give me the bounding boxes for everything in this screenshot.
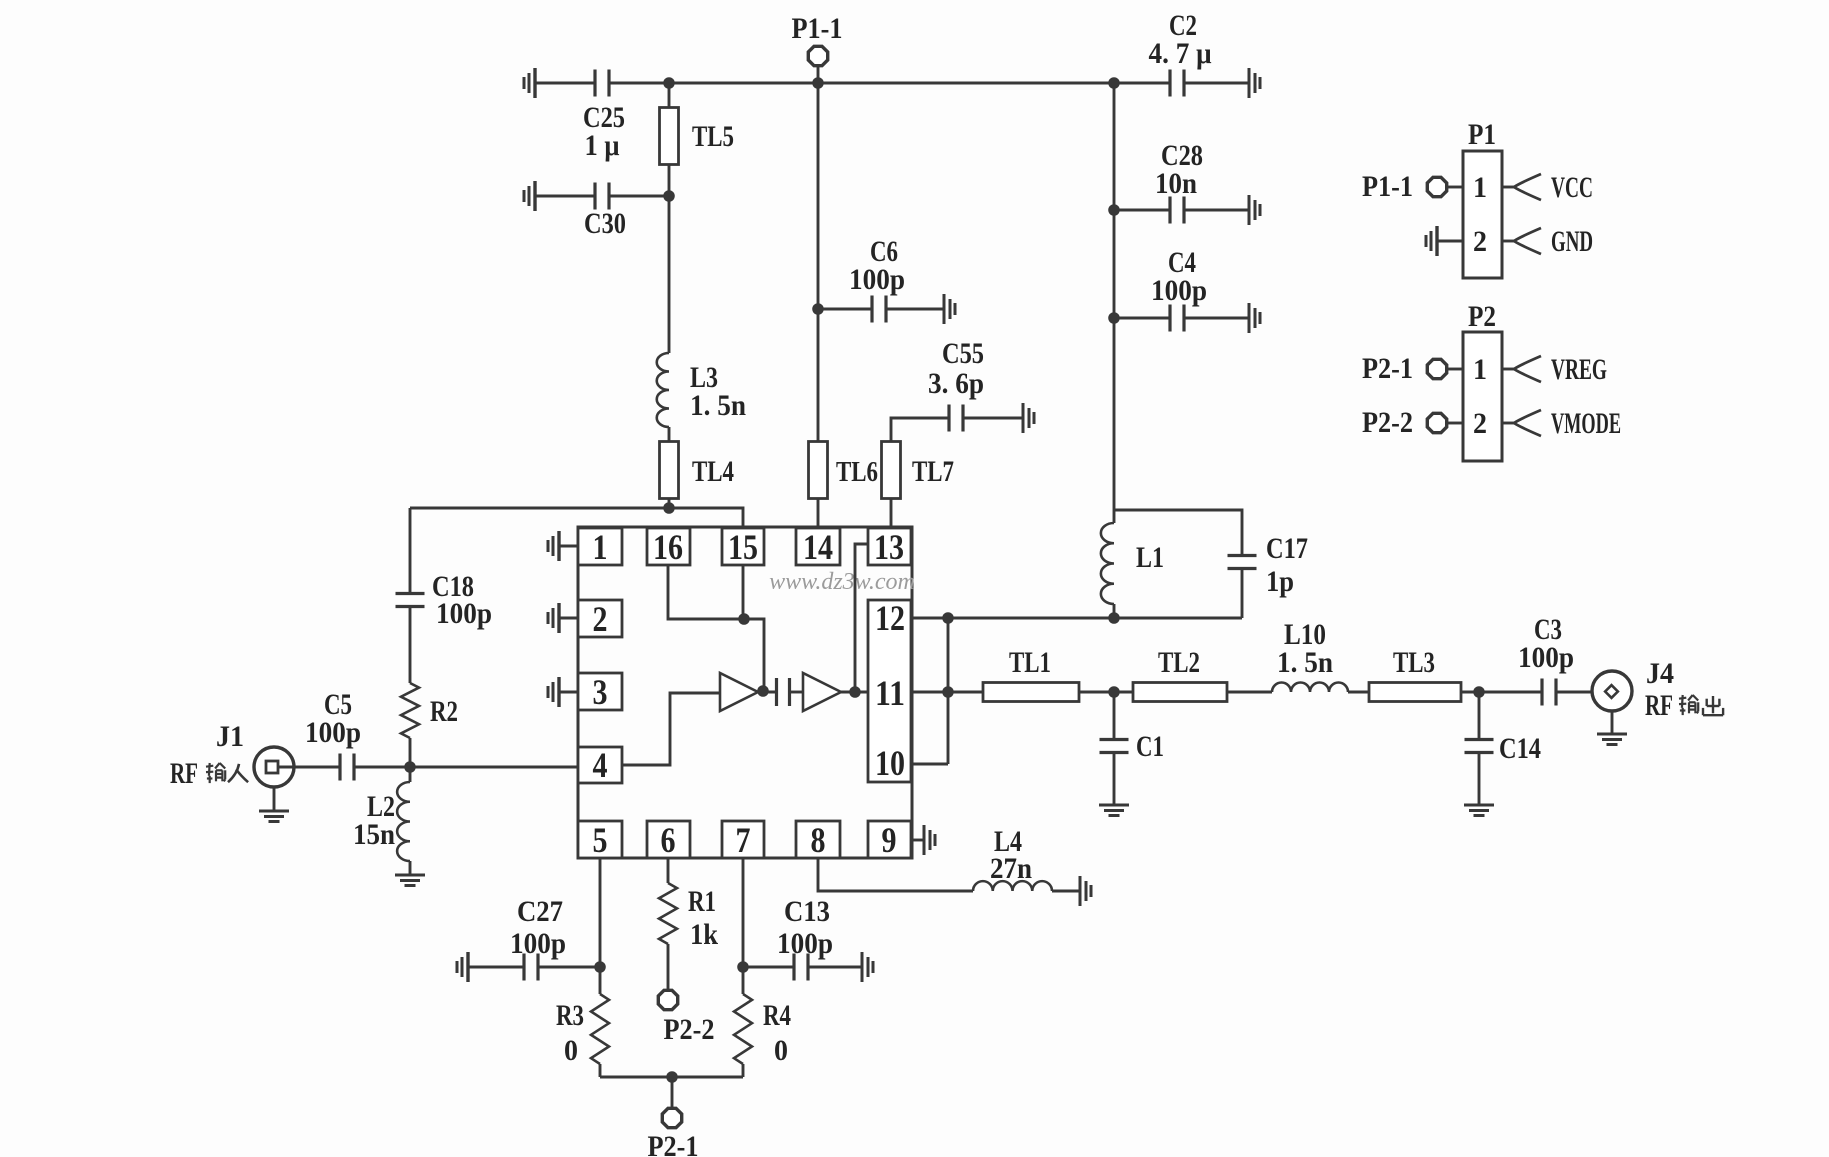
- svg-text:P1-1: P1-1: [792, 12, 843, 45]
- wire: [535, 82, 595, 85]
- svg-text:15n: 15n: [353, 818, 395, 851]
- svg-text:J1: J1: [216, 720, 244, 753]
- capacitor C28: [1114, 209, 1170, 212]
- ground (pin 2): [557, 603, 560, 633]
- wire: [886, 308, 944, 311]
- wire: [1052, 890, 1080, 893]
- capacitor C6: [818, 308, 872, 311]
- svg-text:0: 0: [564, 1034, 578, 1067]
- svg-text:RF: RF: [170, 757, 198, 790]
- node (pin11 net): [942, 686, 954, 698]
- capacitor C5: [338, 754, 341, 781]
- svg-text:100p: 100p: [510, 927, 566, 960]
- node (TL4 / C18 / pin15 net): [663, 502, 675, 514]
- capacitor C2: [1168, 70, 1171, 97]
- svg-text:P2-1: P2-1: [1362, 352, 1413, 385]
- ground (pin 1): [557, 531, 560, 561]
- wire: [609, 195, 669, 198]
- wire: [668, 196, 671, 353]
- capacitor C25: [593, 70, 596, 97]
- wire: [890, 498, 893, 527]
- wire: [609, 82, 1170, 85]
- inductor L1: [1113, 510, 1116, 523]
- wire: [1348, 691, 1369, 694]
- wire: [410, 508, 743, 527]
- connector J4: [1592, 671, 1632, 711]
- pin 13: [868, 528, 911, 565]
- svg-text:C55: C55: [942, 337, 984, 370]
- svg-text:L1: L1: [1136, 541, 1164, 574]
- pins 12-11-10 block: [868, 600, 911, 782]
- connector pad P1-1 (top): [808, 46, 827, 65]
- transmission line TL4: [660, 442, 679, 499]
- wire: [742, 1064, 745, 1077]
- wire: [599, 1064, 602, 1077]
- svg-text:1. 5n: 1. 5n: [690, 389, 746, 422]
- wire: [1184, 209, 1249, 212]
- wire: [668, 565, 744, 619]
- connector pad P2-1 (bottom): [671, 1077, 674, 1108]
- node (C28 tap): [1108, 204, 1120, 216]
- node (rail / P1-1): [812, 77, 824, 89]
- wire: [1502, 422, 1514, 425]
- wire: [744, 619, 764, 686]
- wire: [1184, 82, 1249, 85]
- svg-text:100p: 100p: [849, 263, 905, 296]
- node (pin12 net): [942, 612, 954, 624]
- pin 4: [578, 747, 622, 783]
- amplifier stage 1: [720, 673, 758, 711]
- svg-text:R3: R3: [556, 999, 584, 1032]
- connector pad P2-2 (bottom): [658, 990, 677, 1009]
- wire: [1113, 752, 1116, 805]
- wire: [1556, 691, 1592, 694]
- svg-text:TL2: TL2: [1158, 646, 1200, 679]
- svg-text:VREG: VREG: [1551, 353, 1607, 386]
- wire: [538, 966, 600, 969]
- wire: [1113, 83, 1116, 510]
- wire: [911, 617, 1242, 620]
- resistor R4: [734, 994, 752, 1064]
- wire: [409, 608, 412, 683]
- svg-text:1: 1: [593, 527, 608, 567]
- ground (C13): [861, 952, 864, 982]
- wire: [668, 498, 671, 508]
- wire: [1113, 604, 1116, 618]
- wire: [808, 966, 862, 969]
- wire: [668, 83, 671, 108]
- resistor R2: [401, 683, 419, 738]
- svg-text:RF: RF: [1645, 689, 1673, 722]
- transmission line TL5: [660, 108, 679, 165]
- svg-text:1p: 1p: [1266, 565, 1294, 598]
- transmission line TL2: [1133, 683, 1227, 702]
- net VCC: [1514, 174, 1541, 200]
- node (amp2 output): [849, 686, 861, 698]
- wire: [600, 1076, 743, 1079]
- wire: [1184, 317, 1249, 320]
- pin 5: [578, 821, 622, 858]
- svg-text:R4: R4: [763, 999, 791, 1032]
- wire: [599, 858, 602, 994]
- svg-text:3. 6p: 3. 6p: [928, 367, 984, 400]
- net GND: [1514, 228, 1541, 254]
- ground (C55): [1022, 403, 1025, 433]
- ground (C28): [1248, 195, 1251, 225]
- svg-text:P2-1: P2-1: [648, 1130, 699, 1157]
- wire: [1502, 368, 1514, 371]
- node (TL3/C14/C3): [1473, 686, 1485, 698]
- node (input node): [404, 761, 416, 773]
- svg-text:P1-1: P1-1: [1362, 170, 1413, 203]
- ground (J4): [1611, 711, 1614, 734]
- wire: [742, 565, 745, 619]
- transmission line TL3: [1369, 683, 1461, 702]
- svg-text:P2-2: P2-2: [1362, 406, 1413, 439]
- svg-text:11: 11: [875, 673, 905, 713]
- resistor R1: [667, 858, 670, 883]
- svg-text:16: 16: [653, 527, 683, 567]
- svg-text:1. 5n: 1. 5n: [1277, 646, 1333, 679]
- svg-text:100p: 100p: [777, 927, 833, 960]
- svg-text:2: 2: [1473, 407, 1487, 440]
- node (C30 / TL5): [663, 190, 675, 202]
- ground (C27): [466, 952, 469, 982]
- capacitor C30: [593, 183, 596, 210]
- svg-text:C14: C14: [1499, 732, 1541, 765]
- wire: [742, 858, 745, 994]
- wire: [963, 417, 1023, 420]
- pin 15: [722, 528, 764, 565]
- ground (L2): [395, 874, 425, 877]
- ground (pin 9): [911, 839, 924, 842]
- svg-text:8: 8: [811, 820, 826, 860]
- wire: [891, 418, 949, 442]
- svg-text:GND: GND: [1551, 225, 1593, 258]
- wire: [1502, 240, 1514, 243]
- svg-text:P2-2: P2-2: [664, 1013, 715, 1046]
- svg-text:VCC: VCC: [1551, 171, 1593, 204]
- pin 16: [647, 528, 690, 565]
- svg-text:4: 4: [593, 745, 608, 785]
- pin 7: [722, 821, 764, 858]
- ground (top-left, C25): [533, 68, 536, 98]
- pin 2: [578, 600, 622, 637]
- svg-text:2: 2: [593, 599, 608, 639]
- transmission line TL1: [983, 683, 1079, 702]
- wire: [468, 966, 524, 969]
- wire: [1079, 691, 1133, 694]
- svg-text:TL5: TL5: [692, 120, 734, 153]
- wire: [535, 195, 595, 198]
- wire: [1227, 691, 1272, 694]
- node (P2-1 net): [666, 1071, 678, 1083]
- node (TL1/TL2/C1): [1108, 686, 1120, 698]
- net VREG: [1514, 356, 1541, 382]
- svg-text:3: 3: [593, 672, 608, 712]
- capacitor C55: [947, 405, 950, 432]
- wire: [790, 691, 803, 694]
- inductor L2: [409, 767, 412, 782]
- ground (C30): [533, 181, 536, 211]
- node (pin5/C27/R3): [594, 961, 606, 973]
- wire: [947, 618, 950, 764]
- svg-text:10n: 10n: [1155, 167, 1197, 200]
- svg-text:1 μ: 1 μ: [585, 129, 620, 162]
- node (C6 tap): [812, 303, 824, 315]
- ground (C4): [1248, 303, 1251, 333]
- svg-text:C30: C30: [584, 207, 626, 240]
- wire: [622, 693, 720, 765]
- wire: [409, 861, 412, 875]
- svg-text:C13: C13: [784, 895, 830, 928]
- svg-text:7: 7: [736, 820, 751, 860]
- svg-text:C27: C27: [517, 895, 563, 928]
- wire: [667, 944, 670, 989]
- svg-text:13: 13: [874, 527, 904, 567]
- svg-text:R1: R1: [688, 885, 716, 918]
- svg-text:TL4: TL4: [692, 455, 734, 488]
- capacitor C17: [1228, 554, 1257, 557]
- svg-text:100p: 100p: [436, 597, 492, 630]
- wire: [911, 763, 948, 766]
- wire: [1502, 186, 1514, 189]
- svg-text:15: 15: [728, 527, 758, 567]
- svg-text:TL1: TL1: [1009, 646, 1051, 679]
- svg-text:TL3: TL3: [1393, 646, 1435, 679]
- ground (C2): [1248, 68, 1251, 98]
- svg-text:14: 14: [803, 527, 833, 567]
- connector P1 body: [1463, 151, 1502, 278]
- pin 14: [796, 528, 840, 565]
- resistor R3: [591, 994, 609, 1064]
- wire: [354, 766, 578, 769]
- svg-text:27n: 27n: [990, 852, 1032, 885]
- svg-text:5: 5: [593, 820, 608, 860]
- wire: [817, 83, 820, 442]
- capacitor C1: [1113, 692, 1116, 740]
- svg-text:0: 0: [774, 1034, 788, 1067]
- wire: [1461, 691, 1542, 694]
- capacitor (interstage): [775, 678, 778, 706]
- capacitor C27: [522, 954, 525, 981]
- node (pin7/C13/R4): [737, 961, 749, 973]
- pin 8: [796, 821, 840, 858]
- pin 1: [578, 528, 622, 565]
- wire: [1114, 510, 1242, 556]
- inductor L3: [657, 353, 669, 427]
- svg-text:100p: 100p: [305, 716, 361, 749]
- svg-text:12: 12: [875, 598, 905, 638]
- svg-text:1: 1: [1473, 353, 1487, 386]
- capacitor C14: [1478, 692, 1481, 740]
- wire: [841, 691, 868, 694]
- wire: [668, 164, 671, 196]
- node (rail / C2 branch): [1108, 77, 1120, 89]
- svg-text:9: 9: [882, 820, 897, 860]
- capacitor C4: [1114, 317, 1170, 320]
- svg-text:6: 6: [661, 820, 676, 860]
- svg-text:100p: 100p: [1518, 641, 1574, 674]
- ground (C1): [1099, 804, 1129, 807]
- svg-text:1k: 1k: [690, 918, 718, 951]
- amplifier stage 2: [803, 673, 841, 711]
- wire: [817, 498, 820, 527]
- wire: [409, 508, 412, 594]
- svg-text:10: 10: [875, 743, 905, 783]
- pin 9: [868, 821, 911, 858]
- wire: [1478, 752, 1481, 805]
- svg-text:www.dz3w.com: www.dz3w.com: [769, 569, 915, 595]
- svg-text:J4: J4: [1646, 657, 1674, 690]
- svg-text:TL7: TL7: [912, 455, 954, 488]
- connector P2 body: [1463, 332, 1502, 461]
- wire: [758, 691, 777, 694]
- capacitor C18: [396, 592, 425, 595]
- ground (P1 pin2): [1435, 226, 1438, 256]
- connector J1: [254, 747, 294, 787]
- ground (C14): [1464, 804, 1494, 807]
- wire: [911, 691, 983, 694]
- ground (C6): [943, 294, 946, 324]
- node (C4 tap): [1108, 312, 1120, 324]
- wire: [668, 427, 671, 442]
- capacitor C13: [743, 966, 794, 969]
- net VMODE: [1514, 410, 1541, 436]
- capacitor C3: [1540, 679, 1543, 706]
- svg-text:1: 1: [1473, 171, 1487, 204]
- ground (L4): [1079, 876, 1082, 906]
- svg-text:100p: 100p: [1151, 274, 1207, 307]
- ground (pin 3): [557, 677, 560, 707]
- svg-text:P2: P2: [1468, 300, 1496, 333]
- svg-text:VMODE: VMODE: [1551, 407, 1621, 440]
- svg-text:R2: R2: [430, 695, 458, 728]
- svg-text:TL6: TL6: [836, 456, 878, 488]
- wire: [1241, 568, 1244, 618]
- wire: [855, 544, 868, 692]
- IC U1 outline: [578, 527, 912, 858]
- inductor L4: [818, 858, 973, 891]
- wire: [409, 738, 412, 767]
- svg-text:2: 2: [1473, 225, 1487, 258]
- node (amp1 output): [757, 685, 769, 697]
- svg-text:C1: C1: [1136, 730, 1164, 763]
- transmission line TL7: [882, 442, 901, 499]
- pin 3: [578, 673, 622, 710]
- wire: [278, 766, 340, 769]
- svg-text:4. 7 μ: 4. 7 μ: [1149, 37, 1212, 70]
- pin 6: [647, 821, 690, 858]
- node (L1 bottom): [1108, 612, 1120, 624]
- svg-text:C17: C17: [1266, 532, 1308, 565]
- ground (J1): [273, 787, 276, 811]
- transmission line TL6: [809, 442, 828, 499]
- node (rail / TL5): [663, 77, 675, 89]
- svg-text:P1: P1: [1468, 118, 1496, 151]
- node (pin15/16 net): [738, 613, 750, 625]
- inductor L10: [1272, 683, 1348, 693]
